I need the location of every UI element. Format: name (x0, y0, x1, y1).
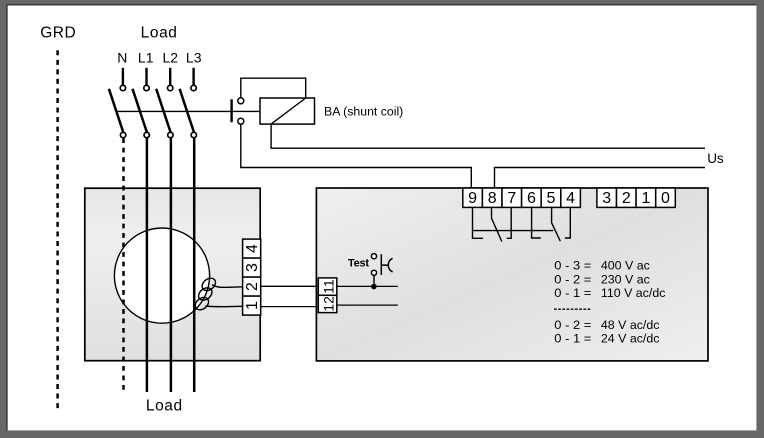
svg-text:0 - 2 =: 0 - 2 = (554, 318, 591, 332)
left unit (current transformer block) (85, 188, 260, 361)
wire coil to terminal 1 (206, 305, 242, 308)
terminal box 11 (318, 278, 337, 295)
svg-text:2: 2 (622, 190, 631, 207)
wire N (dashed) down through CT (122, 138, 125, 390)
svg-text:110 V ac/dc: 110 V ac/dc (601, 286, 666, 300)
svg-text:0 - 3 =: 0 - 3 = (554, 259, 591, 273)
svg-text:GRD: GRD (40, 24, 76, 41)
svg-text:4: 4 (566, 190, 575, 207)
trip actuator bar (230, 99, 232, 122)
breaker pole L1 blade (133, 89, 147, 133)
svg-text:400 V ac: 400 V ac (601, 259, 650, 273)
svg-text:8: 8 (488, 190, 497, 207)
aux contact upper terminal (238, 98, 244, 104)
breaker pole L3 blade (180, 89, 194, 133)
CT circle (114, 228, 209, 323)
svg-text:2: 2 (244, 282, 261, 291)
wire L2 top stub (169, 68, 171, 86)
wire aux lower to terminal 9 (241, 124, 471, 188)
breaker pole L1 bottom contact (144, 132, 149, 137)
svg-text:9: 9 (468, 190, 477, 207)
svg-text:5: 5 (547, 190, 556, 207)
breaker pole N top contact (120, 85, 125, 90)
BA coil diagonal (271, 98, 306, 124)
contact linkage rail (473, 230, 554, 232)
breaker pole L3 bottom contact (191, 132, 196, 137)
wire terminal 2 to terminal 11 (261, 285, 318, 287)
wire terminal 11 to test point (337, 285, 398, 287)
svg-text:4: 4 (244, 244, 261, 253)
terminal column 4/3/2/1 (243, 239, 261, 315)
breaker pole N bottom contact (120, 132, 125, 137)
junction dot on terminal 11 wire (371, 284, 377, 290)
svg-text:1: 1 (244, 301, 261, 310)
svg-text:12: 12 (320, 296, 336, 312)
wire terminal 12 stub (337, 304, 398, 306)
terminal box 12 (318, 295, 337, 312)
svg-text:0 - 1 =: 0 - 1 = (554, 286, 591, 300)
breaker pole L2 top contact (168, 85, 173, 90)
svg-text:0 - 2 =: 0 - 2 = (554, 272, 591, 286)
svg-text:6: 6 (527, 190, 536, 207)
svg-text:0: 0 (661, 190, 670, 207)
relay contact: terminal 7 seat (507, 207, 512, 238)
relay contact: terminal 9 seat (473, 207, 484, 238)
wire BA bottom to Us (upper supply wire) (271, 124, 705, 148)
svg-text:N: N (117, 50, 127, 66)
breaker pole L2 bottom contact (168, 132, 173, 137)
terminal row 9-4 (463, 188, 581, 207)
aux contact lower terminal (238, 118, 244, 124)
wire L1 top stub (145, 68, 147, 86)
wire aux upper to BA coil top (241, 78, 306, 98)
relay contact: terminal 6 seat (532, 207, 541, 238)
svg-text:48 V ac/dc: 48 V ac/dc (601, 318, 660, 332)
breaker pole L1 top contact (144, 85, 149, 90)
svg-text:L3: L3 (186, 50, 202, 66)
wire L3 down through CT (193, 138, 196, 392)
wire L2 down through CT (170, 138, 173, 392)
svg-text:L1: L1 (138, 50, 154, 66)
wire L1 down through CT (146, 138, 149, 392)
svg-text:1: 1 (641, 190, 650, 207)
terminal row 3-2-1-0 (597, 188, 675, 207)
BA shunt coil box (260, 98, 315, 124)
separator dashes (554, 308, 591, 310)
test pushbutton actuator (381, 254, 392, 275)
svg-text:7: 7 (507, 190, 516, 207)
breaker pole N blade (109, 89, 123, 133)
wire test switch to tap (373, 275, 375, 286)
svg-text:L2: L2 (163, 50, 179, 66)
wire L3 top stub (192, 68, 194, 86)
wire terminal 8 to Us (lower supply wire) (495, 168, 706, 189)
svg-text:24 V ac/dc: 24 V ac/dc (601, 332, 660, 346)
svg-text:Load: Load (141, 24, 178, 41)
GRD dashed line (56, 50, 59, 408)
wire N top stub (122, 68, 124, 86)
wire terminal 1 to terminal 12 (261, 306, 318, 308)
breaker pole L3 top contact (191, 85, 196, 90)
svg-text:11: 11 (320, 279, 336, 294)
svg-text:3: 3 (602, 190, 611, 207)
breaker pole L2 blade (156, 89, 170, 133)
svg-text:3: 3 (244, 263, 261, 272)
svg-text:0 - 1 =: 0 - 1 = (554, 332, 591, 346)
CT secondary coil loops (193, 276, 218, 313)
wire coil to terminal 2 (212, 285, 242, 288)
trip linkage line (116, 110, 260, 112)
relay contact: terminal 5 blade (552, 207, 561, 241)
test switch upper contact (371, 254, 376, 259)
svg-text:Test: Test (348, 258, 370, 270)
test switch lower contact (371, 270, 376, 275)
svg-text:Us: Us (707, 151, 724, 166)
svg-text:BA (shunt coil): BA (shunt coil) (324, 105, 403, 119)
svg-text:230 V ac: 230 V ac (601, 272, 650, 286)
svg-text:Load: Load (146, 398, 183, 415)
relay contact: terminal 8 blade (492, 207, 502, 242)
right unit (relay block) (316, 188, 708, 361)
relay contact: terminal 4 seat (565, 207, 571, 238)
